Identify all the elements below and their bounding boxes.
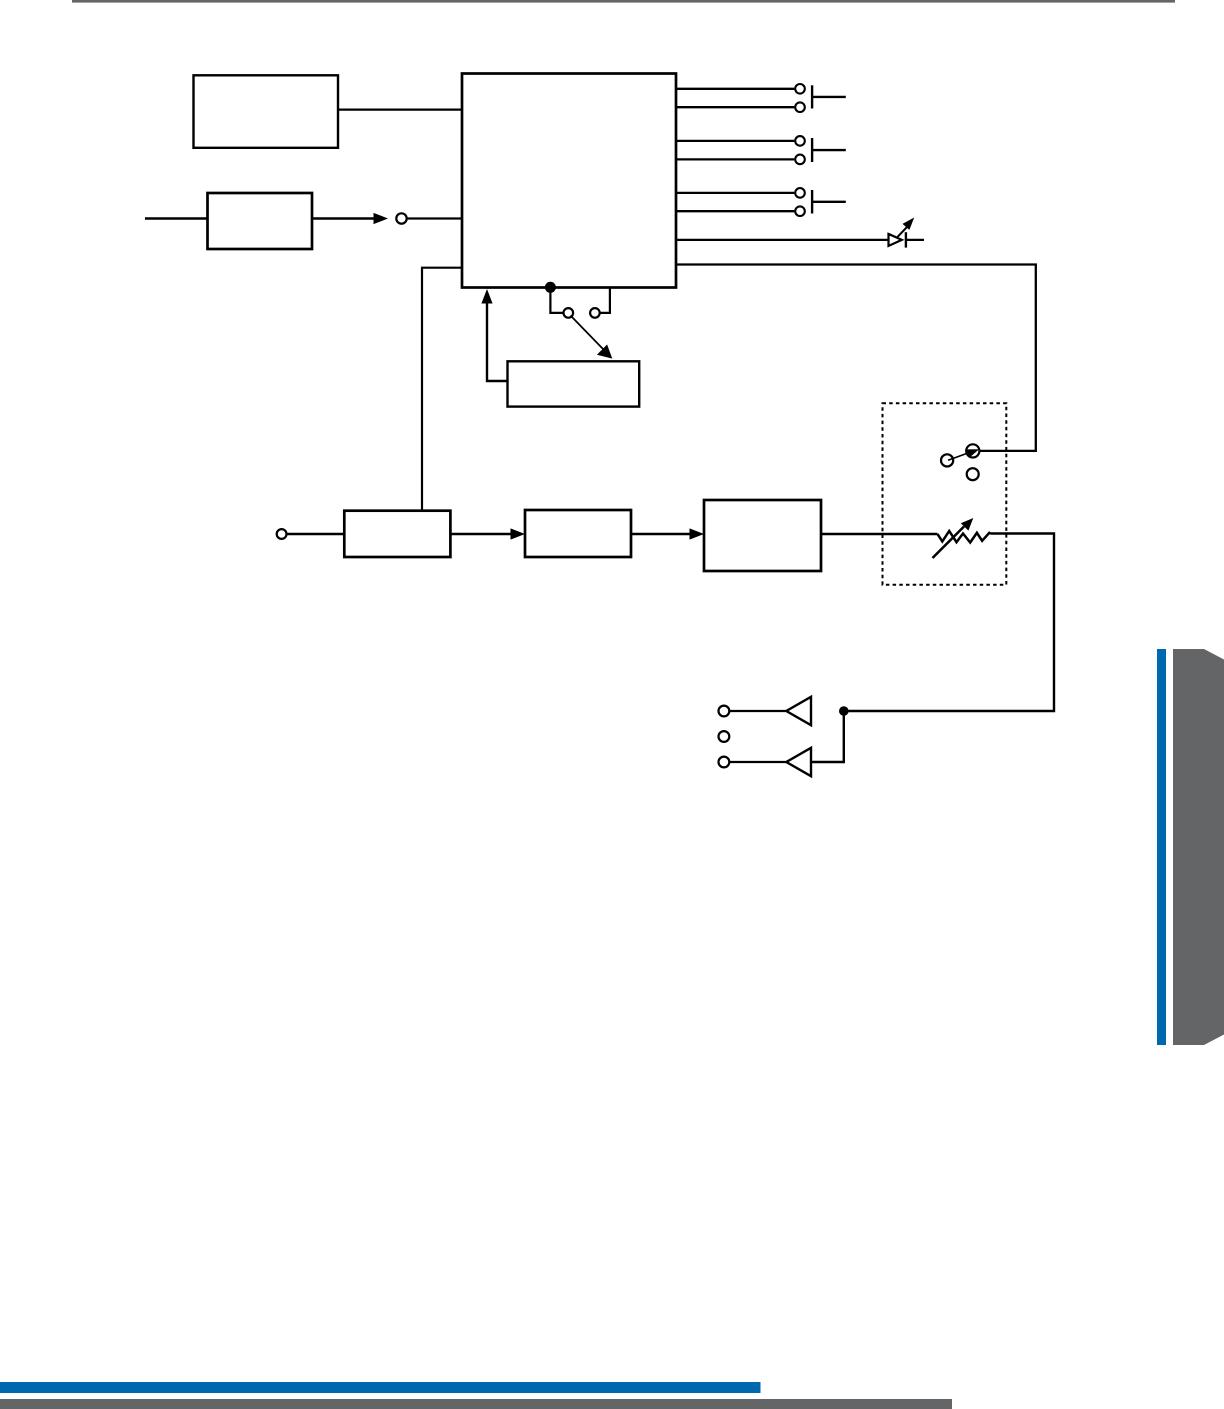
switch SW1 arm (arrow to U4): [571, 316, 604, 350]
wire selector left: [550, 288, 562, 313]
sidebar gray tab: [1173, 649, 1224, 1045]
wire U1 output 2a: [676, 140, 794, 142]
wire U1 output 1b: [676, 106, 794, 108]
buffer A1: [786, 697, 811, 725]
block U6: [525, 510, 631, 557]
crystal X2 bar: [811, 138, 813, 162]
LED D1 emission arrow: [896, 227, 907, 238]
wire U6 to U7 (arrow): [631, 533, 691, 535]
page header rule: [72, 0, 1175, 3]
terminal T4: [719, 731, 730, 742]
crystal X3 bar: [811, 190, 813, 214]
switch SW2 throw circle top: [966, 444, 979, 457]
wire U1 output 3a: [676, 192, 794, 194]
crystal X2 tap wire: [812, 149, 846, 151]
terminal P3a: [795, 188, 805, 198]
wire T2 to U5: [287, 533, 345, 535]
wire U2 to U1: [338, 108, 463, 110]
wire input to U3: [145, 217, 208, 219]
junction dot J1: [839, 706, 849, 716]
junction dot J2 on U1 bottom: [545, 282, 556, 293]
switch SW2 arm arrow: [948, 453, 968, 460]
wire U5 to U6 (arrow): [450, 533, 512, 535]
terminal P2b: [795, 155, 805, 165]
wire potentiometer to buffers: [845, 534, 1054, 712]
wire U1 output 1a: [676, 88, 794, 90]
terminal T3: [719, 706, 730, 717]
wire selector right: [601, 287, 610, 313]
LED D1 triangle: [889, 234, 902, 246]
potentiometer R1: [938, 531, 992, 543]
LED D1 output wire: [906, 239, 924, 241]
wire U3 to terminal (arrow): [312, 217, 375, 219]
switch SW2 pole circle: [941, 454, 953, 466]
wire U4 to U1 (arrow up): [487, 301, 508, 381]
switch SW1 throw circle: [590, 308, 600, 318]
wire U1 to switch SW2: [676, 265, 1036, 451]
footer gray bar: [0, 1399, 952, 1409]
wire U1 down to block U5: [422, 268, 462, 510]
block U5: [344, 511, 450, 557]
terminal P2a: [795, 136, 805, 146]
crystal X1 bar: [811, 85, 813, 108]
block U3 (input left): [208, 193, 313, 249]
terminal P1b: [795, 102, 805, 112]
terminal P3b: [795, 206, 805, 216]
terminal T1: [396, 213, 406, 223]
wire T1 to U1: [407, 217, 462, 219]
wire U1 output 2b: [676, 158, 794, 160]
wire buffer A1 output: [729, 710, 786, 712]
terminal T2: [277, 529, 287, 539]
terminal T5: [719, 757, 730, 768]
dashed option box: [883, 403, 1007, 584]
footer blue bar: [0, 1382, 761, 1393]
crystal X3 tap wire: [812, 201, 846, 203]
block U1 (main): [462, 74, 676, 288]
crystal X1 tap wire: [812, 96, 846, 98]
block U2 (top-left): [194, 75, 339, 148]
wire U7 to potentiometer: [821, 533, 938, 535]
buffer A2: [786, 748, 811, 776]
wire U1 output 3b: [676, 210, 794, 212]
switch SW2 throw circle bottom: [967, 468, 979, 480]
terminal P1a: [795, 84, 805, 94]
sidebar blue bar: [1157, 649, 1166, 1045]
switch SW1 pole circle: [564, 308, 574, 318]
wire buffer A2 input junction: [811, 711, 844, 762]
block U4 (below main): [508, 361, 640, 406]
wire buffer A2 output: [729, 761, 786, 763]
LED D1 cathode bar: [905, 232, 907, 247]
block U7: [704, 500, 821, 571]
wire U1 to LED D1: [676, 239, 888, 241]
